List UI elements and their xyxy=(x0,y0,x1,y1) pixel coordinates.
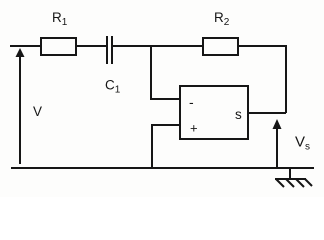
resistor R2 xyxy=(203,38,238,55)
wire C1 to R2 xyxy=(113,45,203,47)
arrow Vs head xyxy=(273,119,282,129)
svg-text:-: - xyxy=(189,94,194,110)
arrow V head xyxy=(16,48,25,57)
capacitor C1 xyxy=(106,36,108,64)
ground xyxy=(289,168,291,179)
wire node A to minus input xyxy=(150,46,152,99)
arrow V shaft xyxy=(19,55,21,164)
arrow Vs shaft xyxy=(276,128,278,167)
op-amp U1 xyxy=(180,86,248,139)
wire op-amp output xyxy=(248,112,286,114)
svg-text:V: V xyxy=(33,104,42,119)
svg-text:+: + xyxy=(190,121,198,136)
svg-text:s: s xyxy=(235,107,242,122)
wire R1 to C1 xyxy=(76,45,106,47)
wire input left xyxy=(10,45,41,47)
wire R2 to right corner xyxy=(238,45,286,47)
wire bottom rail xyxy=(11,167,314,169)
wire plus input from ground rail xyxy=(151,125,153,168)
resistor R1 xyxy=(41,38,76,55)
wire right vertical feedback xyxy=(285,45,287,113)
